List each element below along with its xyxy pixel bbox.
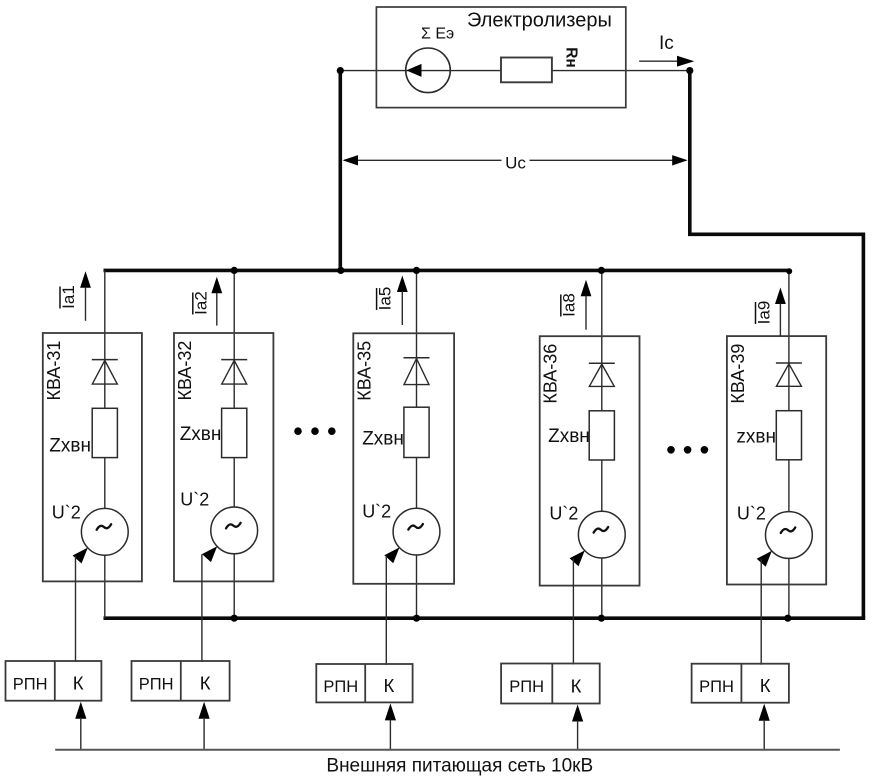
svg-text:КВА-31: КВА-31: [44, 341, 64, 401]
svg-text:U`2: U`2: [52, 503, 81, 523]
svg-text:Внешняя питающая сеть 10кВ: Внешняя питающая сеть 10кВ: [326, 756, 593, 777]
svg-text:U`2: U`2: [362, 502, 391, 522]
svg-text:Ia5: Ia5: [375, 287, 394, 311]
svg-text:Ic: Ic: [659, 33, 674, 54]
svg-text:КВА-36: КВА-36: [541, 344, 561, 404]
svg-text:КВА-39: КВА-39: [728, 344, 748, 404]
svg-text:U`2: U`2: [737, 504, 766, 524]
svg-text:РПН: РПН: [509, 678, 544, 696]
svg-text:КВА-32: КВА-32: [175, 341, 195, 401]
svg-text:РПН: РПН: [323, 678, 358, 696]
svg-text:Zхвн: Zхвн: [180, 424, 222, 445]
svg-text:Σ Eэ: Σ Eэ: [421, 26, 454, 43]
svg-text:Zхвн: Zхвн: [548, 426, 590, 447]
svg-text:РПН: РПН: [699, 678, 734, 696]
svg-text:Rн: Rн: [563, 47, 580, 68]
svg-text:Ia8: Ia8: [560, 293, 579, 317]
svg-text:Zхвн: Zхвн: [49, 436, 91, 457]
svg-text:КВА-35: КВА-35: [354, 341, 374, 401]
svg-text:К: К: [73, 673, 84, 694]
svg-text:РПН: РПН: [13, 675, 48, 693]
svg-text:РПН: РПН: [139, 675, 174, 693]
svg-text:zхвн: zхвн: [736, 427, 776, 448]
svg-text:К: К: [760, 675, 771, 696]
svg-text:U`2: U`2: [180, 490, 209, 510]
svg-text:К: К: [571, 675, 582, 696]
svg-text:К: К: [200, 673, 211, 694]
svg-text:Uc: Uc: [505, 154, 526, 173]
svg-text:Ia2: Ia2: [192, 291, 211, 315]
svg-text:Ia9: Ia9: [754, 301, 773, 325]
svg-text:К: К: [384, 675, 395, 696]
svg-text:Zхвн: Zхвн: [362, 429, 404, 450]
svg-text:U`2: U`2: [549, 504, 578, 524]
svg-text:Электролизеры: Электролизеры: [467, 10, 612, 32]
svg-text:Ia1: Ia1: [59, 285, 78, 309]
